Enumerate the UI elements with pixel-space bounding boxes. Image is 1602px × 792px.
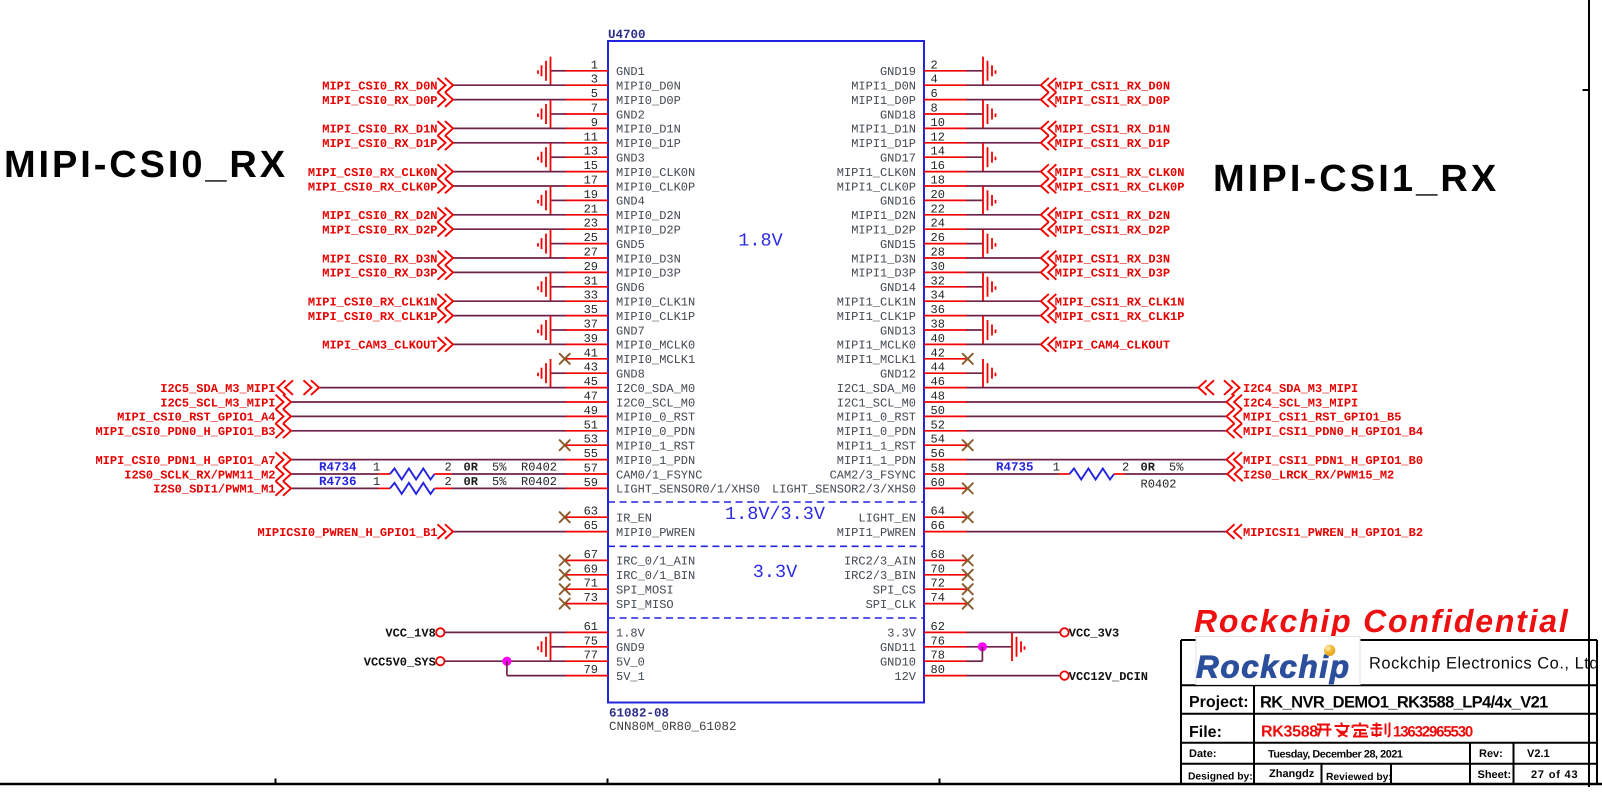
svg-text:MIPI_CSI0_RX_CLK1P: MIPI_CSI0_RX_CLK1P [308, 310, 438, 324]
svg-text:39: 39 [584, 332, 598, 346]
svg-text:19: 19 [584, 188, 598, 202]
svg-text:I2C4_SCL_M3_MIPI: I2C4_SCL_M3_MIPI [1243, 396, 1358, 410]
wire resistor R4735 to net I2S0_LRCK_RX/PWM15_M2 [1125, 473, 1227, 475]
wire net I2C5_SCL_M3_MIPI to pin 47 [291, 401, 566, 403]
svg-text:IRC2/3_BIN: IRC2/3_BIN [844, 569, 916, 583]
svg-text:52: 52 [931, 418, 945, 432]
no-connect X at pin 60 [963, 483, 973, 493]
wire pin 18 to net MIPI_CSI1_RX_CLK0P [967, 185, 1041, 187]
svg-text:63: 63 [584, 505, 598, 519]
svg-text:54: 54 [931, 433, 945, 447]
pin 30 (MIPI1_D3P) stub [924, 271, 968, 273]
svg-text:Tuesday, December 28, 2021: Tuesday, December 28, 2021 [1268, 749, 1403, 761]
svg-text:RK3588: RK3588 [1261, 724, 1318, 741]
svg-text:MIPI_CSI1_RX_D1P: MIPI_CSI1_RX_D1P [1055, 137, 1170, 151]
wire pin 52 to net MIPI_CSI1_PDN0_H_GPIO1_B4 [967, 430, 1227, 432]
ground symbol at pin 8 [983, 100, 996, 128]
pin 67 (IRC_0/1_AIN) stub [565, 559, 609, 561]
svg-text:GND18: GND18 [880, 108, 916, 122]
off-page connector &gt;&gt; I2C4_SDA_M3_MIPI [1224, 380, 1232, 395]
svg-text:60: 60 [931, 476, 945, 490]
pin 35 (MIPI0_CLK1P) stub [565, 315, 609, 317]
pin 62 (3.3V) stub [924, 631, 968, 633]
wire resistor R4736 to pin 59 [452, 487, 566, 489]
svg-text:5%: 5% [492, 461, 507, 475]
off-page connector &gt;&gt; MIPI_CSI0_RX_D3P [438, 265, 446, 280]
off-page connector &lt;&lt; MIPI_CSI1_RX_D3P [1041, 265, 1049, 280]
IC section divider 3 [608, 617, 924, 619]
pin 71 (SPI_MOSI) stub [565, 588, 609, 590]
pin 16 (MIPI1_CLK0N) stub [924, 171, 968, 173]
svg-text:2: 2 [445, 461, 452, 475]
power port VCC_3V3 circle [1060, 628, 1068, 636]
svg-text:5%: 5% [1169, 461, 1184, 475]
pin 68 (IRC2/3_AIN) stub [924, 559, 968, 561]
resistor R4735 pin1 lead [1058, 473, 1070, 475]
pin 76 (GND11) stub [924, 646, 968, 648]
svg-text:0R: 0R [1141, 461, 1156, 475]
off-page connector &lt;&lt; MIPI_CSI1_PDN1_H_GPIO1_B0 [1227, 452, 1235, 467]
svg-text:MIPI_CSI1_PDN0_H_GPIO1_B4: MIPI_CSI1_PDN0_H_GPIO1_B4 [1243, 425, 1423, 439]
off-page connector &gt;&gt; MIPI_CSI0_RST_GPIO1_A4 [276, 409, 284, 424]
svg-text:R4736: R4736 [319, 475, 357, 489]
svg-text:SPI_CLK: SPI_CLK [866, 598, 917, 612]
svg-text:5: 5 [591, 87, 598, 101]
svg-text:64: 64 [931, 505, 945, 519]
svg-text:MIPI0_PWREN: MIPI0_PWREN [616, 526, 695, 540]
svg-text:45: 45 [584, 375, 598, 389]
wire pin 2 to ground [967, 70, 984, 72]
pin 1 (GND1) stub [565, 70, 609, 72]
svg-text:MIPI1_MCLK0: MIPI1_MCLK0 [837, 339, 916, 353]
title block column line before Rev/Sheet [1469, 743, 1471, 784]
wire pin 12 to net MIPI_CSI1_RX_D1P [967, 142, 1041, 144]
svg-text:MIPI_CSI1_RX_D0P: MIPI_CSI1_RX_D0P [1055, 94, 1170, 108]
svg-text:12V: 12V [894, 670, 916, 684]
pin 17 (MIPI0_CLK0P) stub [565, 185, 609, 187]
off-page connector &gt;&gt; MIPI_CSI0_PDN1_H_GPIO1_A7 [276, 452, 284, 467]
no-connect X at pin 42 [963, 354, 973, 364]
pin 38 (GND13) stub [924, 329, 968, 331]
pin 37 (GND7) stub [565, 329, 609, 331]
svg-text:13632965530: 13632965530 [1393, 724, 1473, 741]
pin 34 (MIPI1_CLK1N) stub [924, 300, 968, 302]
no-connect X at pin 72 [963, 584, 973, 594]
svg-text:MIPICSI0_PWREN_H_GPIO1_B1: MIPICSI0_PWREN_H_GPIO1_B1 [257, 526, 437, 540]
ground symbol at pin 44 [983, 359, 996, 387]
wire pin 62 to VCC_3V3 [967, 631, 1061, 633]
pin 53 (MIPI0_1_RST) stub [565, 444, 609, 446]
svg-text:4: 4 [931, 73, 938, 87]
svg-text:78: 78 [931, 649, 945, 663]
sheet zone tick 1 [275, 779, 277, 785]
svg-text:1.8V: 1.8V [738, 231, 782, 252]
svg-text:68: 68 [931, 548, 945, 562]
svg-text:73: 73 [584, 591, 598, 605]
svg-text:Project:: Project: [1189, 694, 1249, 711]
wire pin 20 to ground [967, 199, 984, 201]
svg-text:MIPI1_D1N: MIPI1_D1N [851, 123, 916, 137]
svg-text:Designed by:: Designed by: [1188, 772, 1253, 783]
pin 79 (5V_1) stub [565, 675, 609, 677]
svg-text:IRC_0/1_BIN: IRC_0/1_BIN [616, 569, 695, 583]
svg-text:R0402: R0402 [521, 461, 557, 475]
wire VCC5V0_SYS to pin 77 [445, 660, 566, 662]
off-page connector &lt;&lt; MIPI_CSI1_RX_CLK1N [1041, 294, 1049, 309]
power port VCC5V0_SYS circle [436, 657, 444, 665]
pin 6 (MIPI1_D0P) stub [924, 99, 968, 101]
pin 42 (MIPI1_MCLK1) stub [924, 358, 968, 360]
svg-text:28: 28 [931, 246, 945, 260]
svg-text:48: 48 [931, 390, 945, 404]
svg-text:56: 56 [931, 447, 945, 461]
wire net MIPI_CSI0_RX_D0N to pin 3 [453, 84, 566, 86]
wire net MIPI_CSI0_RST_GPIO1_A4 to pin 49 [291, 415, 566, 417]
off-page connector &lt;&lt; MIPI_CSI1_RX_CLK0P [1041, 179, 1049, 194]
svg-text:I2S0_SCLK_RX/PWM11_M2: I2S0_SCLK_RX/PWM11_M2 [124, 468, 275, 482]
pin 80 (12V) stub [924, 675, 968, 677]
svg-text:MIPI_CSI0_RX_D0P: MIPI_CSI0_RX_D0P [322, 94, 437, 108]
wire net MIPI_CSI0_RX_D1N to pin 9 [453, 127, 566, 129]
svg-text:Date:: Date: [1189, 748, 1217, 760]
wire pin 38 to ground [967, 329, 984, 331]
off-page connector &lt;&lt; MIPI_CSI1_RX_D3N [1041, 251, 1049, 266]
svg-text:I2C1_SDA_M0: I2C1_SDA_M0 [837, 382, 916, 396]
sheet zone tick 2 [607, 779, 609, 785]
svg-text:GND9: GND9 [616, 641, 645, 655]
svg-text:MIPI1_D1P: MIPI1_D1P [851, 137, 916, 151]
off-page connector &gt;&gt; MIPI_CSI0_RX_D2N [438, 208, 446, 223]
wire pin 50 to net MIPI_CSI1_RST_GPIO1_B5 [967, 415, 1227, 417]
svg-text:VCC_1V8: VCC_1V8 [385, 627, 435, 641]
svg-text:I2C5_SDA_M3_MIPI: I2C5_SDA_M3_MIPI [160, 382, 275, 396]
svg-text:RK_NVR_DEMO1_RK3588_LP4/4x_V21: RK_NVR_DEMO1_RK3588_LP4/4x_V21 [1260, 694, 1548, 712]
pin 15 (MIPI0_CLK0N) stub [565, 171, 609, 173]
svg-text:Rev:: Rev: [1479, 748, 1503, 760]
title block column line before V2.1 / 27 of 43 [1513, 743, 1515, 784]
pin 52 (MIPI1_0_PDN) stub [924, 430, 968, 432]
svg-text:MIPI_CSI0_RX_D1N: MIPI_CSI0_RX_D1N [322, 123, 437, 137]
svg-text:MIPI0_MCLK1: MIPI0_MCLK1 [616, 353, 695, 367]
pin 60 (LIGHT_SENSOR2/3/XHS0) stub [924, 487, 968, 489]
svg-text:1.8V/3.3V: 1.8V/3.3V [725, 504, 825, 525]
svg-text:MIPI_CSI0_RX_CLK1N: MIPI_CSI0_RX_CLK1N [308, 296, 438, 310]
svg-text:47: 47 [584, 390, 598, 404]
pin 43 (GND8) stub [565, 372, 609, 374]
resistor R4734 body [390, 469, 435, 480]
no-connect X at pin 69 [560, 570, 570, 580]
svg-text:7: 7 [591, 102, 598, 116]
svg-text:GND19: GND19 [880, 65, 916, 79]
svg-text:2: 2 [445, 475, 452, 489]
wire pin 36 to net MIPI_CSI1_RX_CLK1P [967, 315, 1041, 317]
title block row line under File row [1181, 742, 1597, 744]
wire net MIPI_CSI0_PDN0_H_GPIO1_B3 to pin 51 [291, 430, 566, 432]
resistor R4736 pin1 lead [378, 487, 390, 489]
pin 72 (SPI_CS) stub [924, 588, 968, 590]
svg-text:27 of 43: 27 of 43 [1531, 769, 1578, 781]
off-page connector &lt;&lt; MIPI_CSI1_RX_D1P [1041, 136, 1049, 151]
IC section divider 2 [608, 545, 924, 547]
pin 24 (MIPI1_D2P) stub [924, 228, 968, 230]
svg-text:I2C0_SDA_M0: I2C0_SDA_M0 [616, 382, 695, 396]
pin 61 (1.8V) stub [565, 631, 609, 633]
svg-text:CAM2/3_FSYNC: CAM2/3_FSYNC [830, 468, 916, 482]
svg-text:32: 32 [931, 274, 945, 288]
svg-text:21: 21 [584, 202, 598, 216]
svg-text:53: 53 [584, 433, 598, 447]
off-page connector &gt;&gt; I2C5_SCL_M3_MIPI [276, 395, 284, 410]
wire pin 28 to net MIPI_CSI1_RX_D3N [967, 257, 1041, 259]
svg-text:MIPI_CSI0_RX_D1P: MIPI_CSI0_RX_D1P [322, 137, 437, 151]
svg-text:R4735: R4735 [996, 461, 1034, 475]
wire pin 14 to ground [967, 156, 984, 158]
svg-text:LIGHT_EN: LIGHT_EN [858, 512, 916, 526]
svg-text:16: 16 [931, 159, 945, 173]
svg-text:MIPI_CSI1_RX_D2P: MIPI_CSI1_RX_D2P [1055, 224, 1170, 238]
wire net MIPI_CSI0_PDN1_H_GPIO1_A7 to pin 55 [291, 459, 566, 461]
svg-text:I2S0_LRCK_RX/PWM15_M2: I2S0_LRCK_RX/PWM15_M2 [1243, 468, 1394, 482]
no-connect X at pin 70 [963, 570, 973, 580]
pin 41 (MIPI0_MCLK1) stub [565, 358, 609, 360]
svg-text:6: 6 [931, 87, 938, 101]
svg-text:MIPI-CSI1_RX: MIPI-CSI1_RX [1213, 158, 1499, 200]
pin 28 (MIPI1_D3N) stub [924, 257, 968, 259]
pin 39 (MIPI0_MCLK0) stub [565, 343, 609, 345]
wire pin 16 to net MIPI_CSI1_RX_CLK0N [967, 171, 1041, 173]
ground symbol at pin 7 [538, 100, 551, 128]
pin 23 (MIPI0_D2P) stub [565, 228, 609, 230]
svg-text:MIPI_CSI0_RST_GPIO1_A4: MIPI_CSI0_RST_GPIO1_A4 [117, 411, 275, 425]
junction node VCC5V0_SYS [502, 657, 511, 666]
off-page connector &gt;&gt; MIPI_CSI0_RX_D1P [438, 136, 446, 151]
svg-text:14: 14 [931, 145, 945, 159]
off-page connector &gt;&gt; MIPI_CSI0_RX_D0N [438, 78, 446, 93]
resistor R4735 body [1070, 469, 1115, 480]
title block row line under Date row [1181, 763, 1597, 765]
svg-text:26: 26 [931, 231, 945, 245]
svg-text:12: 12 [931, 130, 945, 144]
no-connect X at pin 67 [560, 555, 570, 565]
off-page connector &gt;&gt; MIPI_CSI0_RX_D2P [438, 222, 446, 237]
wire pin 78 to junction column [967, 660, 983, 662]
wire pin 40 to net MIPI_CAM4_CLKOUT [967, 343, 1041, 345]
svg-text:18: 18 [931, 174, 945, 188]
pin 25 (GND5) stub [565, 243, 609, 245]
svg-text:1: 1 [1053, 461, 1060, 475]
pin 46 (I2C1_SDA_M0) stub [924, 387, 968, 389]
svg-text:5V_1: 5V_1 [616, 670, 645, 684]
svg-text:Zhangdz: Zhangdz [1269, 768, 1315, 780]
wire pin 37 to ground [551, 329, 566, 331]
wire pin 75 to ground [551, 646, 566, 648]
svg-text:MIPI0_CLK0N: MIPI0_CLK0N [616, 166, 695, 180]
svg-text:GND4: GND4 [616, 195, 645, 209]
svg-text:I2C4_SDA_M3_MIPI: I2C4_SDA_M3_MIPI [1243, 382, 1358, 396]
pin 48 (I2C1_SCL_M0) stub [924, 401, 968, 403]
pin 65 (MIPI0_PWREN) stub [565, 531, 609, 533]
ground symbol at pin 75 [538, 633, 551, 661]
svg-text:LIGHT_SENSOR0/1/XHS0: LIGHT_SENSOR0/1/XHS0 [616, 483, 760, 497]
svg-text:22: 22 [931, 202, 945, 216]
op IC U4700 body [608, 41, 924, 703]
ground symbol at pin 37 [538, 316, 551, 344]
wire pin 24 to net MIPI_CSI1_RX_D2P [967, 228, 1041, 230]
svg-text:72: 72 [931, 577, 945, 591]
svg-text:MIPI_CSI0_PDN1_H_GPIO1_A7: MIPI_CSI0_PDN1_H_GPIO1_A7 [95, 454, 275, 468]
ground symbol at pin 1 [538, 57, 551, 85]
pin 64 (LIGHT_EN) stub [924, 516, 968, 518]
off-page connector &lt;&lt; I2C4_SDA_M3_MIPI [1199, 380, 1207, 395]
wire pin 44 to ground [967, 372, 984, 374]
wire pin 48 to net I2C4_SCL_M3_MIPI [967, 401, 1227, 403]
Rockchip logo background box [1196, 637, 1360, 685]
svg-text:MIPI0_CLK1N: MIPI0_CLK1N [616, 296, 695, 310]
no-connect X at pin 71 [560, 584, 570, 594]
svg-text:IRC_0/1_AIN: IRC_0/1_AIN [616, 555, 695, 569]
pin 9 (MIPI0_D1N) stub [565, 127, 609, 129]
wire net MIPI_CSI0_RX_D1P to pin 11 [453, 142, 566, 144]
svg-text:MIPI0_0_RST: MIPI0_0_RST [616, 411, 695, 425]
off-page connector &lt;&lt; I2C5_SDA_M3_MIPI [278, 380, 286, 395]
no-connect X at pin 74 [963, 599, 973, 609]
svg-text:MIPI0_MCLK0: MIPI0_MCLK0 [616, 339, 695, 353]
svg-text:61: 61 [584, 620, 598, 634]
ground symbol at pin 25 [538, 229, 551, 257]
pin 21 (MIPI0_D2N) stub [565, 214, 609, 216]
svg-text:MIPI1_CLK1N: MIPI1_CLK1N [837, 296, 916, 310]
resistor R4734 pin2 lead [435, 473, 453, 475]
pin 70 (IRC2/3_BIN) stub [924, 574, 968, 576]
wire net MIPI_CSI0_RX_D0P to pin 5 [453, 99, 566, 101]
wire pin 43 to ground [551, 372, 566, 374]
off-page connector &gt;&gt; MIPI_CSI0_RX_CLK1N [438, 294, 446, 309]
svg-text:CAM0/1_FSYNC: CAM0/1_FSYNC [616, 468, 702, 482]
svg-text:65: 65 [584, 519, 598, 533]
svg-text:MIPI0_D3N: MIPI0_D3N [616, 252, 681, 266]
off-page connector &lt;&lt; MIPI_CSI1_RX_D0N [1041, 78, 1049, 93]
pin 63 (IR_EN) stub [565, 516, 609, 518]
svg-text:GND16: GND16 [880, 195, 916, 209]
svg-text:GND8: GND8 [616, 368, 645, 382]
svg-text:3: 3 [591, 73, 598, 87]
svg-text:MIPI1_D2P: MIPI1_D2P [851, 224, 916, 238]
pin 54 (MIPI1_1_RST) stub [924, 444, 968, 446]
svg-text:CNN80M_0R80_61082: CNN80M_0R80_61082 [609, 720, 737, 734]
svg-text:0R: 0R [464, 475, 479, 489]
svg-text:I2S0_SDI1/PWM1_M1: I2S0_SDI1/PWM1_M1 [153, 483, 275, 497]
svg-text:MIPI0_CLK0P: MIPI0_CLK0P [616, 180, 695, 194]
no-connect X at pin 73 [560, 599, 570, 609]
svg-text:GND14: GND14 [880, 281, 916, 295]
svg-text:MIPI1_0_RST: MIPI1_0_RST [837, 411, 916, 425]
svg-text:VCC5V0_SYS: VCC5V0_SYS [364, 656, 436, 670]
ground symbol at pin 43 [538, 359, 551, 387]
svg-text:MIPI0_1_PDN: MIPI0_1_PDN [616, 454, 695, 468]
svg-text:1: 1 [373, 461, 380, 475]
wire net I2S0_SDI1/PWM1_M1 to resistor R4736 [291, 487, 379, 489]
svg-text:MIPI0_D0P: MIPI0_D0P [616, 94, 681, 108]
svg-text:46: 46 [931, 375, 945, 389]
svg-text:GND3: GND3 [616, 152, 645, 166]
off-page connector &lt;&lt; MIPI_CSI1_RX_CLK0N [1041, 164, 1049, 179]
svg-text:31: 31 [584, 274, 598, 288]
wire pin 32 to ground [967, 286, 984, 288]
svg-text:5%: 5% [492, 475, 507, 489]
pin 27 (MIPI0_D3N) stub [565, 257, 609, 259]
svg-text:MIPI_CSI0_RX_CLK0N: MIPI_CSI0_RX_CLK0N [308, 166, 438, 180]
svg-text:57: 57 [584, 462, 598, 476]
wire pin 58 to resistor R4735 [967, 473, 1059, 475]
off-page connector &lt;&lt; MIPICSI1_PWREN_H_GPIO1_B2 [1227, 524, 1235, 539]
pin 66 (MIPI1_PWREN) stub [924, 531, 968, 533]
wire pin 46 to net I2C4_SDA_M3_MIPI [967, 387, 1199, 389]
svg-text:MIPI_CAM4_CLKOUT: MIPI_CAM4_CLKOUT [1055, 339, 1170, 353]
power port VCC12V_DCIN circle [1060, 671, 1068, 679]
svg-text:42: 42 [931, 346, 945, 360]
svg-text:MIPI1_MCLK1: MIPI1_MCLK1 [837, 353, 916, 367]
svg-text:I2C0_SCL_M0: I2C0_SCL_M0 [616, 396, 695, 410]
svg-text:58: 58 [931, 462, 945, 476]
svg-text:MIPI0_CLK1P: MIPI0_CLK1P [616, 310, 695, 324]
svg-text:15: 15 [584, 159, 598, 173]
wire net MIPI_CSI0_RX_CLK1P to pin 35 [453, 315, 566, 317]
svg-text:MIPI_CSI1_RX_D1N: MIPI_CSI1_RX_D1N [1055, 123, 1170, 137]
no-connect X at pin 64 [963, 512, 973, 522]
svg-text:10: 10 [931, 116, 945, 130]
ground symbol at pin 14 [983, 143, 996, 171]
svg-text:74: 74 [931, 591, 945, 605]
wire junction down to pin 78 row [981, 647, 983, 661]
pin 56 (MIPI1_1_PDN) stub [924, 459, 968, 461]
svg-text:R0402: R0402 [1141, 478, 1177, 492]
title block column line after labels [1253, 685, 1255, 784]
wire pin 8 to ground [967, 113, 984, 115]
svg-text:50: 50 [931, 404, 945, 418]
svg-text:17: 17 [584, 174, 598, 188]
sheet border bottom line [0, 783, 1602, 785]
wire pin 1 to ground [551, 70, 566, 72]
svg-text:V2.1: V2.1 [1527, 748, 1550, 760]
svg-text:MIPI_CSI0_RX_D3P: MIPI_CSI0_RX_D3P [322, 267, 437, 281]
wire pin 22 to net MIPI_CSI1_RX_D2N [967, 214, 1041, 216]
svg-text:24: 24 [931, 217, 945, 231]
svg-text:MIPI_CSI1_RX_D3P: MIPI_CSI1_RX_D3P [1055, 267, 1170, 281]
svg-text:IRC2/3_AIN: IRC2/3_AIN [844, 555, 916, 569]
svg-text:VCC12V_DCIN: VCC12V_DCIN [1069, 670, 1148, 684]
off-page connector &gt;&gt; I2S0_SDI1/PWM1_M1 [276, 481, 284, 496]
pin 69 (IRC_0/1_BIN) stub [565, 574, 609, 576]
pin 57 (CAM0/1_FSYNC) stub [565, 473, 609, 475]
wire pin 26 to ground [967, 243, 984, 245]
svg-text:75: 75 [584, 634, 598, 648]
svg-text:67: 67 [584, 548, 598, 562]
svg-text:36: 36 [931, 303, 945, 317]
pin 40 (MIPI1_MCLK0) stub [924, 343, 968, 345]
svg-text:MIPI_CSI1_PDN1_H_GPIO1_B0: MIPI_CSI1_PDN1_H_GPIO1_B0 [1243, 454, 1423, 468]
svg-text:71: 71 [584, 577, 598, 591]
svg-text:MIPI-CSI0_RX: MIPI-CSI0_RX [4, 144, 288, 186]
pin 45 (I2C0_SDA_M0) stub [565, 387, 609, 389]
sheet zone tick right [1583, 89, 1590, 91]
svg-text:69: 69 [584, 562, 598, 576]
svg-text:MIPI1_D3P: MIPI1_D3P [851, 267, 916, 281]
svg-text:MIPI0_D1P: MIPI0_D1P [616, 137, 681, 151]
svg-text:MIPI1_CLK0P: MIPI1_CLK0P [837, 180, 916, 194]
wire pin 13 to ground [551, 156, 566, 158]
svg-text:MIPI_CSI0_RX_D0N: MIPI_CSI0_RX_D0N [322, 80, 437, 94]
no-connect X at pin 68 [963, 555, 973, 565]
